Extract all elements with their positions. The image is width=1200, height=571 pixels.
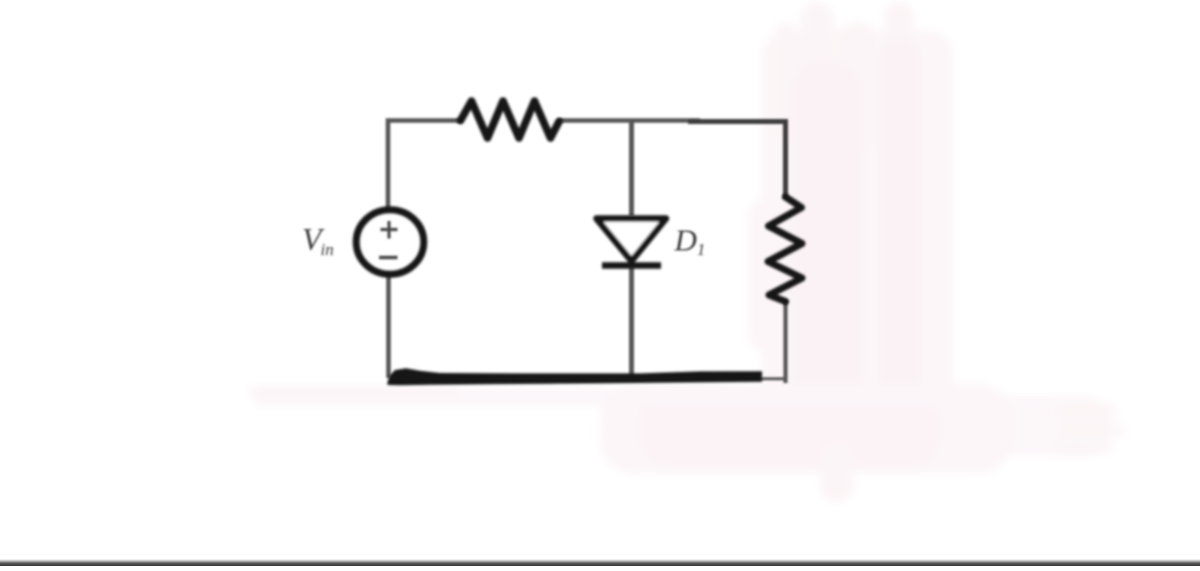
wire left bottom [386,274,391,378]
wire top right + node corner [688,122,786,199]
pink wash below wire [600,384,1012,474]
pink highlighter wash (right side) [248,2,1126,502]
grey wires [388,121,786,384]
wire top left [388,121,462,211]
diode D1 cathode bar [602,262,661,269]
wire diode top [629,121,634,216]
resistor R1 (series, top) [461,101,560,138]
black components [356,101,802,302]
plus terminal mark of Vin [379,221,398,258]
minus terminal mark of Vin [379,256,398,260]
diode D1 triangle [597,219,667,262]
wire right bottom [783,300,787,383]
label Vin [302,221,705,259]
voltage source Vin (circle) [356,210,424,275]
pink smear under bottom wire [252,388,952,406]
bottom grey bar [0,559,1200,566]
subtle pinker core [792,60,862,440]
wire diode bottom [629,266,634,377]
wire top mid [558,118,700,123]
resistor R2 (load, right) [768,197,802,302]
wire bottom right thin [760,377,786,380]
wire bottom (ground net, thick marker overdraw) [387,368,762,385]
